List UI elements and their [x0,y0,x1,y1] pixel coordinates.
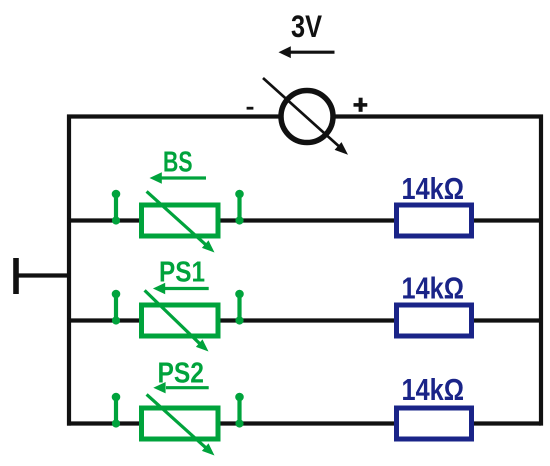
wire: row 3 bottom bus y=423.5 [67,421,541,425]
pin right [237,397,241,424]
resistor R2 14k [397,305,472,336]
minus terminal label [247,107,254,110]
wire: top bus y=116.5 [67,114,543,118]
wiper arrow [147,191,207,245]
resistor R3 14k [397,408,472,439]
svg-text:14kΩ: 14kΩ [402,171,465,206]
potentiometer BS [112,190,244,253]
body [142,408,219,439]
body [142,205,219,236]
pin left [114,397,118,424]
resistor R1 14k [397,205,472,236]
svg-text:14kΩ: 14kΩ [402,271,465,306]
wire: row 2 horizontal y=320.5 [67,318,541,322]
wire: row 1 horizontal y=220.5 [67,218,541,222]
svg-text:BS: BS [163,146,193,178]
ground [14,258,71,294]
potentiometer PS2 [112,393,244,456]
body [142,305,219,336]
arrow for 3V polarity [279,46,335,58]
pin right [237,194,241,221]
svg-text:14kΩ: 14kΩ [402,372,465,407]
pin left [114,294,118,321]
wire: right vertical bus x=541 [539,115,543,426]
svg-text:3V: 3V [291,8,322,44]
arrow for PS1 [153,283,209,294]
wiper arrow [147,394,207,448]
pin right [237,294,241,321]
arrow for BS [150,172,207,183]
pin left [114,194,118,221]
voltage source V1 [263,78,348,155]
arrow for PS2 [153,382,208,393]
potentiometer PS1 [112,290,244,352]
svg-text:PS1: PS1 [159,256,205,288]
plus terminal label [354,98,368,112]
wire: left vertical bus x=69 [67,115,71,426]
wiper arrow [145,290,201,344]
